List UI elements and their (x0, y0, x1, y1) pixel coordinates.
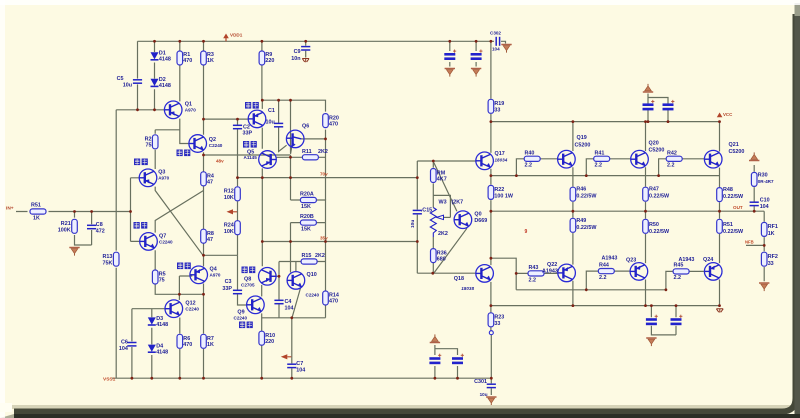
capacitor C8 (87, 225, 96, 228)
wire: VSS2 rail (491, 305, 720, 307)
node dots OUT rail (572, 210, 575, 213)
svg-text:1K: 1K (33, 216, 40, 222)
resistor R19 top 33ohm (488, 99, 494, 113)
svg-text:47: 47 (207, 237, 213, 243)
wire: bottom VSS rail (112, 377, 491, 379)
transistor Q9 (247, 296, 265, 314)
svg-text:472: 472 (96, 229, 105, 235)
ground below cap2 (471, 69, 481, 77)
electrolytic cap supply 2 (471, 50, 483, 59)
svg-text:33: 33 (768, 261, 774, 267)
resistor R15 (301, 259, 317, 264)
resistor R41 (594, 156, 610, 161)
svg-text:4148: 4148 (156, 322, 168, 328)
node dots driver column (490, 120, 493, 123)
svg-text:Q10: Q10 (307, 272, 317, 278)
wire: local top bus y100 (262, 100, 325, 139)
svg-text:C3: C3 (225, 279, 232, 285)
svg-text:R45: R45 (674, 263, 684, 269)
svg-text:R43: R43 (529, 265, 539, 271)
node dots top rail (153, 40, 156, 43)
wire: Q17 collector (490, 122, 492, 153)
wire: R41 link (586, 159, 630, 176)
svg-text:RF2: RF2 (768, 254, 778, 260)
svg-text:33P: 33P (222, 286, 232, 292)
svg-text:R30: R30 (758, 173, 768, 179)
transistor Q6 (286, 130, 304, 148)
svg-text:0.22/5W: 0.22/5W (576, 225, 597, 231)
wire: long middle wire 1 (238, 177, 418, 179)
resistor R20 (323, 114, 329, 128)
wire: Q1 bottom L to R2 and Q2 base (155, 119, 189, 144)
wire: R30 C10 branch (753, 165, 755, 211)
wire: R40 link (516, 159, 557, 176)
net arrow at C7 (281, 354, 292, 359)
svg-text:9: 9 (525, 229, 528, 235)
wire: bottom electrolytics pair (435, 345, 458, 378)
svg-text:Q18: Q18 (454, 276, 464, 282)
trimmer W3 zigzag (430, 208, 436, 238)
svg-text:R50: R50 (649, 222, 659, 228)
svg-text:2K2: 2K2 (315, 253, 325, 259)
node dots rail2 (572, 120, 575, 123)
wire: D3 D4 column (151, 309, 153, 379)
wire: PNP base bus (516, 289, 666, 291)
wire: Q8 base stub (270, 275, 279, 277)
rail2 decoupling electrolytic 1 (643, 100, 655, 109)
VSS2 electrolytic 2 (671, 315, 683, 324)
wire: RF1 column (763, 211, 765, 281)
wire: Q8 emitter to Q9 collector (261, 285, 263, 297)
ground below cap1 (445, 69, 455, 77)
transistor Q4 (248, 110, 266, 128)
svg-text:C2240: C2240 (159, 240, 173, 245)
svg-text:A1943: A1943 (602, 256, 618, 262)
svg-text:470: 470 (329, 122, 338, 128)
svg-text:A1943: A1943 (679, 257, 695, 263)
wire: R45 link (666, 271, 705, 289)
node dots wire1 (236, 176, 239, 179)
resistor R14 (323, 291, 329, 305)
wire: x325 column (325, 139, 327, 262)
resistor R47 (643, 187, 649, 201)
svg-text:C2240: C2240 (209, 143, 223, 148)
wire: bias box around Q10 (261, 262, 325, 318)
svg-text:0.22/5W: 0.22/5W (723, 229, 744, 235)
svg-text:0.22/5W: 0.22/5W (723, 194, 744, 200)
wire: input base column Q3/Q7 (131, 178, 140, 242)
svg-text:R51: R51 (31, 203, 41, 209)
node dots VSS2 rail (572, 304, 575, 307)
transistor Q8 mirrored (259, 268, 277, 286)
signal ground at Q24 collector (716, 309, 723, 313)
wire: Q18 base row (417, 272, 476, 274)
wire: Q12 collector stub (178, 294, 180, 300)
wire: R20A R20B zigzag (291, 200, 326, 223)
svg-text:10u: 10u (410, 220, 416, 228)
svg-text:C7: C7 (296, 361, 303, 367)
resistor R48 (717, 188, 723, 202)
svg-text:C5200: C5200 (649, 148, 665, 154)
node dot NFB (763, 244, 766, 247)
svg-text:C2240: C2240 (234, 316, 248, 321)
svg-text:Q6: Q6 (302, 124, 309, 130)
svg-text:A970: A970 (185, 108, 196, 113)
matched-pair label for Q9 (239, 322, 253, 329)
svg-text:C301: C301 (474, 379, 487, 385)
matched-pair label for Q2 (177, 150, 191, 157)
wire: Q10 collector stub and emitter diagonal (292, 262, 301, 318)
matched-pair label for Q8 (242, 267, 256, 274)
matched-pair label for Q3 (134, 159, 148, 166)
svg-text:A970: A970 (210, 273, 221, 278)
svg-text:Q17: Q17 (495, 151, 505, 157)
wire: R4 bottom diagonal to Q7 collector (155, 191, 203, 233)
wire: Q9 emitter / R10 column (261, 313, 263, 378)
resistor R46 (570, 187, 576, 201)
resistor R5 (152, 270, 158, 284)
svg-text:A1145: A1145 (244, 155, 258, 160)
svg-text:R20B: R20B (300, 214, 314, 220)
resistor R1 (177, 51, 183, 65)
resistor R22 (488, 185, 494, 199)
svg-text:220: 220 (265, 339, 274, 345)
node dots base bus npn (515, 174, 518, 177)
wire: Q21 emitter R48 (719, 168, 721, 212)
wire: PNP collector drops (573, 280, 720, 306)
wire: C5 branch column (137, 41, 139, 110)
svg-text:W3: W3 (439, 200, 447, 206)
resistor R7 (201, 334, 207, 348)
wire: C9 branch (305, 41, 307, 57)
capacitor C7 (287, 364, 296, 367)
wire: NPN base bus (491, 175, 720, 177)
svg-text:470: 470 (329, 299, 338, 305)
svg-text:D669: D669 (474, 218, 487, 224)
resistor R43 (528, 271, 544, 276)
resistor R36 (431, 249, 437, 263)
svg-text:VSS1: VSS1 (103, 377, 116, 383)
capacitor C4 (274, 300, 283, 303)
svg-text:R19: R19 (494, 101, 504, 107)
wire: C8 branch (91, 212, 93, 246)
resistor R21 100K (72, 219, 78, 233)
resistor R49 (570, 218, 576, 232)
node dots pnp drive (515, 272, 518, 275)
capacitor C10 (750, 202, 759, 205)
wire: VAS column x417 with C15 (416, 161, 418, 273)
wire: below W3 to R36 (432, 237, 434, 273)
wire: Q2 emitter / R4 / R8 column with diagonals (203, 152, 205, 255)
resistor R11 (302, 155, 318, 160)
wire: R42 link (659, 159, 704, 176)
wire: Q3 collector diagonal to lower node (155, 187, 203, 256)
pad circle below R23 (489, 331, 493, 335)
svg-text:VCC: VCC (723, 112, 733, 117)
svg-text:10u: 10u (266, 120, 275, 126)
svg-text:1K: 1K (207, 58, 214, 64)
svg-text:Q20: Q20 (649, 141, 659, 147)
wire: left bias node y=110 (116, 109, 164, 111)
wire: Q19 emitter R46 to OUT (572, 167, 574, 211)
node dots wire2 (289, 240, 292, 243)
wire: PNP drive tap (491, 258, 558, 290)
svg-text:Q22: Q22 (547, 262, 557, 268)
resistor R9 (259, 51, 265, 65)
node dot A (202, 118, 205, 121)
svg-text:470: 470 (183, 342, 192, 348)
resistor R44 (598, 269, 614, 274)
bottom electrolytic 1 (429, 354, 441, 363)
resistor R51b (717, 219, 723, 233)
wire: NFB stub (746, 244, 764, 246)
resistor R23 (488, 313, 494, 327)
svg-text:35v: 35v (320, 236, 328, 241)
svg-text:2.2: 2.2 (525, 163, 533, 169)
svg-text:2.2: 2.2 (674, 275, 682, 281)
wire: C31 output cap to ground (490, 378, 492, 395)
svg-text:C1: C1 (268, 108, 275, 114)
node dots left bias row (136, 108, 139, 111)
wire: node y255 to C3 column to Q9 base (204, 255, 247, 305)
transistor Q5 mirrored (259, 151, 277, 169)
bottom electrolytic 2 (452, 354, 464, 363)
wire: Q12 emitter R6 column (179, 318, 181, 379)
svg-text:Q0: Q0 (474, 212, 481, 218)
svg-text:18034: 18034 (495, 158, 508, 163)
wire: Q4b base drop (179, 276, 192, 294)
transistor Q2 (189, 135, 207, 153)
capacitor C301 top with ground (496, 37, 499, 46)
svg-text:2K2: 2K2 (318, 149, 328, 155)
svg-text:10n: 10n (291, 56, 300, 62)
wire: R2 column Q1 collector to Q3 emitter (154, 130, 156, 169)
svg-text:4148: 4148 (159, 57, 171, 63)
svg-text:104: 104 (760, 204, 769, 210)
svg-text:C4: C4 (285, 299, 292, 305)
resistor R4 (201, 172, 207, 186)
svg-text:4K7: 4K7 (437, 177, 447, 183)
wire: rail2 decoupling caps (648, 94, 668, 122)
ground under VSS2 caps (646, 338, 656, 346)
wire: VSS2 decoupling caps (651, 306, 676, 335)
capacitor C2 (233, 125, 242, 128)
wire: Q4b emitter up to node (203, 255, 205, 266)
wire: W3 top tap (433, 195, 450, 217)
resistor R6 (177, 334, 183, 348)
svg-text:R13: R13 (103, 254, 113, 260)
wire: R50 to Q23 emitter (645, 211, 647, 263)
svg-text:A970: A970 (158, 176, 169, 181)
wire: R3 column to node A (203, 41, 205, 119)
svg-text:100 1W: 100 1W (494, 194, 513, 200)
svg-text:47: 47 (207, 180, 213, 186)
wire: R44 link (586, 271, 630, 290)
wire: Q4b collector / R7 column (203, 284, 205, 379)
wire: R23 column pad and drop to VSS rail (490, 306, 492, 379)
svg-text:VDD1: VDD1 (230, 33, 243, 38)
svg-text:15K: 15K (301, 204, 311, 210)
signal ground for C9 (302, 59, 309, 63)
wire: R1 column to Q1 (179, 41, 181, 101)
transistor Q23 (630, 263, 648, 281)
resistor R3 (201, 51, 207, 65)
transistor Q17 (476, 152, 494, 170)
svg-text:10K: 10K (224, 195, 234, 201)
capacitor C31 (487, 384, 496, 387)
resistor R20B (300, 220, 316, 225)
svg-text:220: 220 (265, 58, 274, 64)
net arrow NFB left (227, 209, 238, 214)
transistor Q20 (631, 150, 649, 168)
wire: second VCC rail (491, 121, 720, 123)
svg-text:R42: R42 (667, 151, 677, 157)
svg-text:Q19: Q19 (577, 135, 587, 141)
svg-text:1K: 1K (207, 342, 214, 348)
svg-text:33P: 33P (243, 131, 253, 137)
wire: Q18 emitter to VSS2 rail (490, 282, 492, 306)
svg-text:R44: R44 (599, 263, 609, 269)
svg-text:OUT: OUT (733, 205, 743, 210)
svg-text:C9: C9 (294, 49, 301, 55)
svg-text:680: 680 (437, 257, 446, 263)
wire: D1 D2 column (154, 41, 156, 110)
resistor RF1 (761, 222, 767, 236)
wire: C1 branch with diagonal to Q6 base (279, 100, 287, 151)
svg-text:2.2: 2.2 (595, 163, 603, 169)
svg-text:15K: 15K (301, 227, 311, 233)
matched-pair label for Q4 top (245, 102, 259, 109)
svg-text:4148: 4148 (159, 83, 171, 89)
svg-text:0.22/5W: 0.22/5W (576, 194, 597, 200)
resistor R30 (751, 172, 757, 186)
wire: Q6 collector to R20 bottom node (301, 138, 325, 140)
svg-text:2K2: 2K2 (438, 231, 448, 237)
wire: node y157 Q2 emitter to Q5 base node (204, 154, 291, 156)
svg-text:33: 33 (494, 108, 500, 114)
svg-text:10u: 10u (123, 83, 132, 89)
matched-pair label for Q5 (243, 141, 257, 148)
wire: OUT node down to Q18 collector (490, 211, 492, 265)
svg-text:470: 470 (183, 58, 192, 64)
transistor Q22 (558, 264, 576, 282)
capacitor C6 (127, 343, 136, 346)
svg-text:R47: R47 (649, 187, 659, 193)
wire: Q4-Q5-Q8 column (261, 100, 263, 266)
svg-text:R49: R49 (576, 218, 586, 224)
wire: Q6 emitter diagonal (291, 147, 292, 154)
wire: R49 to Q22 emitter (572, 211, 574, 264)
svg-text:R21: R21 (61, 221, 71, 227)
node dots bottom rail (131, 377, 134, 380)
svg-text:R51: R51 (723, 222, 733, 228)
svg-text:100K: 100K (58, 228, 71, 234)
svg-text:R22: R22 (494, 187, 504, 193)
resistor R10 (259, 331, 265, 345)
svg-text:104: 104 (492, 47, 500, 52)
capacitor C15 (413, 210, 422, 213)
resistor R20A (300, 197, 316, 202)
diode D2 (151, 79, 159, 87)
wire: Q7 emitter R5 column to node y294 (155, 250, 203, 294)
ground under C31 (486, 397, 496, 405)
svg-text:33: 33 (494, 321, 500, 327)
svg-text:C5200: C5200 (729, 149, 745, 155)
electrolytic cap supply 1 (444, 50, 456, 59)
power node VCC at rail2 end (717, 113, 723, 118)
transistor Q0 (454, 211, 472, 229)
svg-text:C2240: C2240 (185, 307, 199, 312)
resistor RM (431, 169, 437, 183)
ground under input network (69, 248, 79, 256)
wire: top bias node to Q17 base (417, 160, 476, 162)
resistor R51 (30, 209, 46, 214)
VSS2 electrolytic 1 (646, 315, 658, 324)
transistor Q4 second stage left (190, 266, 208, 284)
resistor R13 (113, 252, 119, 266)
resistor R24 (235, 221, 241, 235)
svg-text:C5200: C5200 (575, 143, 591, 149)
svg-text:R23: R23 (494, 315, 504, 321)
wire: input line (16, 211, 131, 213)
svg-text:C2705: C2705 (241, 283, 255, 288)
resistor RF2 (761, 252, 767, 266)
wire: C7 column below Q10 box (291, 318, 293, 378)
svg-text:C5: C5 (117, 76, 124, 82)
matched-pair label for Q7 (134, 222, 148, 229)
svg-text:Q24: Q24 (703, 257, 713, 263)
svg-text:1K: 1K (768, 231, 775, 237)
diode D3 (148, 317, 156, 325)
transistor Q3 (139, 169, 157, 187)
resistor R12 (235, 187, 241, 201)
capacitor C9 (301, 47, 310, 50)
resistor R8 (201, 229, 207, 243)
resistor R45 (673, 269, 689, 274)
diode D1 (151, 52, 159, 60)
wire: R9 column (261, 41, 263, 100)
transistor Q10 (287, 272, 305, 290)
svg-text:R41: R41 (595, 151, 605, 157)
ground arrow above bottom caps (430, 334, 440, 342)
svg-text:10K: 10K (224, 229, 234, 235)
wire: top VCC rail (138, 40, 491, 42)
diode D4 (148, 345, 156, 353)
wire: far-left column with R13 (115, 110, 117, 378)
svg-text:0R-4R7: 0R-4R7 (758, 179, 774, 184)
wire: C301 stub right of rail corner (491, 41, 506, 43)
svg-text:IN+: IN+ (6, 206, 14, 212)
transistor Q19 (558, 150, 576, 168)
capacitor C3 (233, 290, 242, 293)
transistor Q1 (164, 101, 182, 119)
wire: C6 column (131, 309, 133, 379)
wire: Q5 base node / column x290.5 (276, 100, 290, 272)
resistor R2 (152, 135, 158, 149)
svg-text:70v: 70v (320, 172, 328, 177)
svg-text:48v: 48v (216, 159, 224, 164)
rail2 decoupling electrolytic 2 (663, 100, 675, 109)
svg-text:C8: C8 (96, 222, 103, 228)
svg-text:4148: 4148 (156, 350, 168, 356)
node dot input (73, 210, 76, 213)
svg-text:Q21: Q21 (729, 142, 739, 148)
wire: R22 column to OUT node (490, 176, 492, 212)
capacitor C1 (274, 123, 283, 126)
resistor R50 (643, 219, 649, 233)
svg-text:C302: C302 (490, 31, 501, 36)
capacitor C5 (133, 80, 142, 83)
